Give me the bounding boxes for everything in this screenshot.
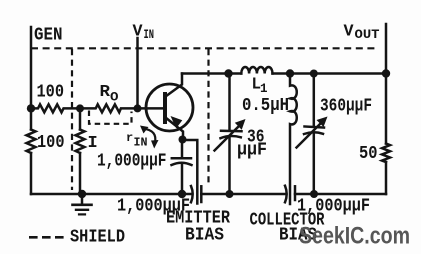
svg-text:50: 50 [359, 144, 378, 164]
svg-text:100: 100 [37, 133, 65, 153]
capacitor C 360uuF variable [297, 74, 328, 195]
shield dashed vertical (mid) [207, 49, 209, 184]
node: 360uuF top [310, 70, 318, 78]
r_IN curved arrow [143, 129, 155, 144]
capacitor C 36uuF variable [215, 74, 246, 195]
wire: bottom rail right segment [295, 193, 386, 196]
capacitor: collector bias right plate [294, 186, 297, 200]
capacitor 1000uuF emitter bypass [172, 140, 192, 194]
wire: left generator rail vertical top [30, 27, 33, 130]
wire: top rail (collector to Vout) [182, 72, 241, 75]
transistor Q1 collector lead [166, 74, 183, 97]
svg-text:GEN: GEN [34, 26, 63, 46]
wire: top rail after L1 [273, 72, 387, 75]
node: L1 right [286, 69, 294, 77]
svg-text:I: I [88, 134, 98, 153]
capacitor: emitter bias coupling, curved plate [191, 186, 193, 202]
svg-text:IN: IN [144, 28, 155, 42]
wire: bottom ground rail left segment [31, 193, 191, 196]
node: 360uuF bottom [310, 190, 318, 198]
transistor Q1 base bar [163, 94, 167, 122]
svg-text:SHIELD: SHIELD [70, 228, 125, 248]
resistor 50 (vertical, load) [382, 24, 390, 194]
capacitor: collector bias coupling, curved plate [285, 186, 287, 203]
node: emitter [179, 136, 187, 144]
transistor Q1 emitter lead [166, 118, 184, 141]
svg-text:1,000μμF: 1,000μμF [97, 152, 167, 172]
svg-text:100: 100 [37, 83, 65, 103]
svg-text:O: O [110, 91, 119, 105]
svg-text:V: V [133, 23, 144, 42]
node: bypass cap to rail [178, 190, 186, 198]
svg-text:360μμF: 360μμF [320, 97, 372, 117]
capacitor: emitter bias right plate [200, 186, 203, 202]
node: Vout [382, 69, 390, 77]
shield dashed lines [29, 48, 379, 237]
transistor Q1 circle [146, 84, 193, 131]
wire: left rail bottom [30, 153, 33, 194]
svg-text:SeekIC.com: SeekIC.com [299, 223, 410, 250]
inductor: vertical coil under L1 right node [290, 74, 297, 205]
wire: Vin drop [136, 38, 139, 108]
shield legend dashes [29, 236, 67, 239]
svg-text:BIAS: BIAS [185, 226, 224, 246]
resistor 100 (vertical, generator shunt) [27, 130, 36, 154]
emitter bias feed wire [182, 140, 197, 204]
wire: bottom rail middle segment [201, 193, 284, 196]
wire: base lead [138, 107, 165, 110]
resistor I (vertical) [76, 108, 85, 194]
node: base [134, 104, 142, 112]
svg-text:0.5μH: 0.5μH [242, 96, 289, 116]
node: L1 left [224, 69, 232, 77]
inductor L1 humps [241, 67, 272, 74]
resistor R0 (horizontal) [80, 104, 138, 112]
shield top dashed [31, 47, 379, 49]
node: R junction [76, 104, 84, 112]
svg-text:OUT: OUT [355, 28, 381, 42]
svg-text:μμF: μμF [237, 141, 267, 161]
node: 36uuF bottom [226, 190, 234, 198]
shield dashed vertical (GEN box) [71, 49, 73, 190]
node: ground junction [78, 190, 86, 198]
svg-text:V: V [344, 23, 355, 42]
resistor 100 (horizontal, series) [31, 104, 80, 112]
svg-text:1: 1 [260, 82, 268, 96]
ground [73, 194, 92, 214]
shield dashed box around R0 [89, 111, 132, 124]
svg-text:IN: IN [134, 136, 148, 150]
transistor Q1 emitter arrow (PNP) [171, 116, 183, 128]
node: left rail / series R [27, 104, 35, 112]
svg-text:r: r [126, 131, 133, 145]
